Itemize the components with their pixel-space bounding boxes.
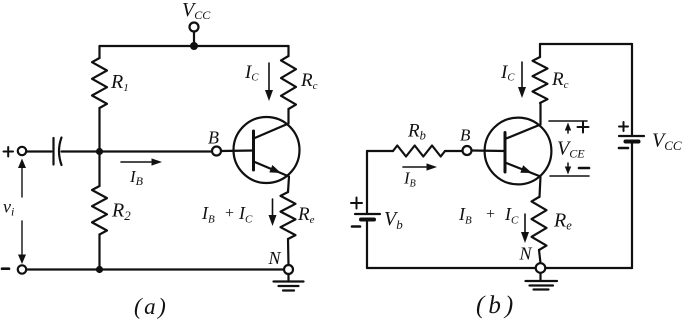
VCE down arrow <box>567 163 569 167</box>
wire Re to N (a) <box>287 239 290 265</box>
transistor Q2 collector <box>505 103 541 139</box>
transistor Q1 collector <box>254 109 289 139</box>
arrow vi down head <box>18 255 26 265</box>
battery VCC plus label <box>619 122 628 131</box>
transistor Q2 emitter <box>505 163 541 198</box>
arrow vi up head <box>18 159 26 169</box>
junction node base divider (a) <box>96 148 103 155</box>
wire capacitor to B (a) <box>62 150 213 152</box>
arrow IC (a) <box>268 63 270 90</box>
resistor Rc (a) <box>281 56 296 109</box>
arrow IB (b) <box>403 166 426 168</box>
capacitor C (input) <box>54 138 62 166</box>
wire VCC battery to bottom rail (b) <box>631 144 633 269</box>
transistor Q2 base bar <box>504 133 507 173</box>
svg-text:N: N <box>519 244 533 264</box>
junction dot bottom rail (a) <box>96 266 103 273</box>
terminal N (a) <box>284 265 293 274</box>
wire top rail (a) <box>100 45 289 47</box>
transistor Q2 circle <box>485 118 552 185</box>
wire base node to R2 <box>98 152 100 186</box>
wire R2 to bottom rail <box>98 235 100 270</box>
wire top rail to Rc (b) <box>539 44 541 57</box>
VCE plus label <box>578 122 589 133</box>
svg-text:(b): (b) <box>476 292 517 319</box>
transistor Q1 emitter <box>254 162 290 193</box>
battery VCC minus label <box>619 147 628 150</box>
battery Vb minus label <box>352 225 360 228</box>
svg-text:N: N <box>268 248 282 268</box>
wire Re to N (b) <box>539 250 541 263</box>
svg-text:B: B <box>460 126 471 145</box>
ground (b) <box>526 273 558 290</box>
resistor R1 <box>92 58 107 108</box>
terminal B (b) <box>463 146 472 155</box>
wire top rail (b) <box>540 43 632 45</box>
wire vi upper shaft <box>21 165 23 197</box>
wire left drop to R1 (a) <box>98 46 100 58</box>
wire bottom rail (a) <box>26 268 284 270</box>
svg-text:+: + <box>225 205 234 222</box>
ground (a) <box>274 274 304 291</box>
wire top rail to Rc (a) <box>287 46 289 56</box>
arrow IB+IC (a) <box>272 199 274 216</box>
battery Vb <box>355 214 380 220</box>
VCE top tick line <box>549 120 587 122</box>
resistor Rb <box>393 146 445 157</box>
wire input to capacitor <box>26 150 51 152</box>
wire bottom rail (b) <box>367 267 632 269</box>
wire Rb to B (b) <box>445 150 462 152</box>
battery Vb plus label <box>351 198 362 209</box>
battery VCC <box>619 136 644 142</box>
wire VCC stem (a) <box>193 32 195 45</box>
wire B to transistor (a) <box>221 149 254 152</box>
arrow IB (a) <box>121 161 151 163</box>
label + input (a) <box>4 147 14 157</box>
resistor R2 <box>92 186 107 235</box>
arrow IC (b) <box>521 62 523 87</box>
svg-text:(a): (a) <box>134 294 168 319</box>
transistor Q1 circle <box>234 117 300 183</box>
VCE up arrow <box>567 129 569 133</box>
VCE bottom tick line <box>550 175 589 177</box>
svg-text:B: B <box>208 128 219 148</box>
terminal input bottom (a) <box>18 265 26 273</box>
terminal N (b) <box>536 263 546 273</box>
wire R1 bottom to base node (a) <box>98 108 100 152</box>
wire right side down to VCC battery (b) <box>631 44 633 135</box>
wire vi lower shaft <box>21 221 23 256</box>
arrow IB+IC (b) <box>524 214 526 233</box>
junction dot on top rail (a) <box>190 42 198 50</box>
resistor Re (a) <box>281 192 296 239</box>
terminal B (a) <box>212 147 221 156</box>
transistor Q1 base bar <box>252 131 255 170</box>
terminal input top (a) <box>18 147 26 155</box>
resistor Re (b) <box>532 197 547 250</box>
node VCC (a) terminal <box>190 23 199 32</box>
resistor Rc (b) <box>533 57 548 103</box>
label - input (a) <box>2 267 9 270</box>
wire left side up from Vb (b) <box>366 151 368 213</box>
svg-text:+: + <box>486 206 495 223</box>
wire B to transistor (b) <box>472 149 506 152</box>
VCE minus label <box>579 167 589 170</box>
wire left side Vb to bottom (b) <box>366 221 368 268</box>
wire to Rb <box>367 150 393 152</box>
